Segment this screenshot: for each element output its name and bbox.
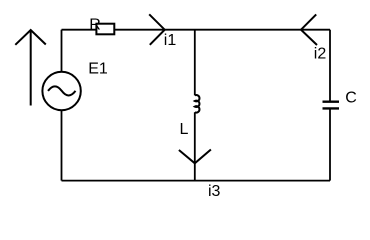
AC source E1 (circle with sine) [42, 72, 80, 110]
capacitor C (plates) [323, 102, 340, 109]
wire left vertical top (source to top wire) [61, 30, 63, 72]
wire top horizontal (node to node) [62, 29, 331, 31]
wire bottom horizontal [62, 180, 331, 182]
current arrow i1 (pointing right on top wire) [149, 14, 165, 45]
svg-text:R: R [89, 17, 101, 34]
svg-text:i1: i1 [164, 32, 177, 49]
wire right vertical top (top wire to capacitor) [329, 30, 331, 102]
current arrow i3 (pointing down on middle branch) [179, 150, 211, 164]
wire left vertical bottom (source to bottom wire) [61, 110, 63, 180]
current arrow i2 (pointing left on top wire) [301, 14, 317, 45]
wire middle vertical bottom (inductor to bottom wire) [194, 112, 196, 180]
inductor L (coil) [195, 95, 200, 113]
svg-text:i3: i3 [208, 183, 221, 200]
resistor R (box) [96, 24, 114, 35]
svg-text:i2: i2 [314, 46, 327, 63]
svg-text:C: C [345, 90, 357, 107]
wire right vertical bottom (capacitor to bottom wire) [329, 108, 331, 180]
source current arrow (left of E1) [15, 30, 46, 106]
svg-text:L: L [180, 121, 189, 138]
wire middle vertical top (top wire to inductor) [194, 30, 196, 96]
svg-text:E1: E1 [88, 60, 108, 77]
